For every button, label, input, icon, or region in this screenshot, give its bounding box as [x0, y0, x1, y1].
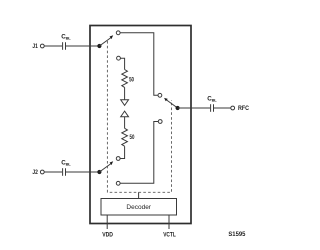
node SW2 pole — [97, 170, 101, 174]
wire R1 to ground — [124, 87, 126, 99]
wire SW1 throw A to SW3 throw 1 — [120, 33, 158, 96]
ground (R1) — [121, 100, 129, 106]
wire CBL to SW2 pole — [66, 171, 99, 173]
wire R2 to SW2 throw B — [121, 146, 125, 158]
decoder block — [101, 199, 177, 216]
terminal J1 — [40, 44, 44, 48]
svg-text:CBL: CBL — [61, 160, 71, 167]
terminal J2 — [40, 170, 44, 174]
terminal RFC — [231, 106, 235, 110]
resistor R1 — [122, 70, 128, 88]
contact SW2 throw B — [116, 157, 120, 161]
contact SW3 throw 1 — [158, 93, 162, 97]
contact SW3 throw 2 — [158, 120, 162, 124]
dashed RF-section boundary — [107, 41, 171, 192]
outer package box — [90, 26, 191, 224]
svg-text:50: 50 — [130, 135, 135, 141]
capacitor CBL (J2) — [63, 168, 66, 176]
wire SW1 throw B to R1 — [121, 58, 125, 69]
contact SW2 throw A — [116, 181, 120, 185]
svg-text:S1595: S1595 — [228, 231, 246, 238]
switch SW2 arm — [99, 161, 113, 172]
pin VDD — [106, 215, 108, 229]
switch SW3 arm — [164, 98, 178, 108]
node SW3 pole — [176, 106, 180, 110]
node SW1 pole — [97, 44, 101, 48]
ground (R2) — [121, 111, 129, 117]
wire SW2 throw A to SW3 throw 2 — [120, 122, 158, 184]
wire RF section to decoder — [138, 192, 140, 198]
capacitor CBL (J1) — [63, 42, 66, 50]
wire ground to R2 — [124, 117, 126, 129]
svg-text:VCTL: VCTL — [163, 232, 176, 238]
contact SW1 throw B — [117, 56, 121, 60]
svg-text:CBL: CBL — [207, 96, 217, 103]
contact SW1 throw A — [116, 31, 120, 35]
wire CBL to SW1 pole — [66, 45, 99, 47]
wire CBL to RFC terminal — [214, 107, 231, 109]
svg-text:Decoder: Decoder — [126, 204, 151, 211]
wire J2 to CBL — [44, 171, 62, 173]
svg-text:J1: J1 — [32, 44, 38, 50]
resistor R2 — [122, 128, 128, 146]
pin VCTL — [168, 215, 170, 229]
svg-text:J2: J2 — [32, 170, 38, 176]
svg-text:RFC: RFC — [238, 106, 250, 112]
capacitor CBL (RFC) — [211, 104, 214, 112]
svg-text:50: 50 — [129, 77, 134, 83]
svg-text:CBL: CBL — [61, 34, 71, 41]
wire J1 to CBL — [44, 45, 62, 47]
wire RFC out — [178, 107, 210, 109]
svg-text:VDD: VDD — [102, 232, 113, 238]
switch SW1 arm — [99, 35, 113, 46]
